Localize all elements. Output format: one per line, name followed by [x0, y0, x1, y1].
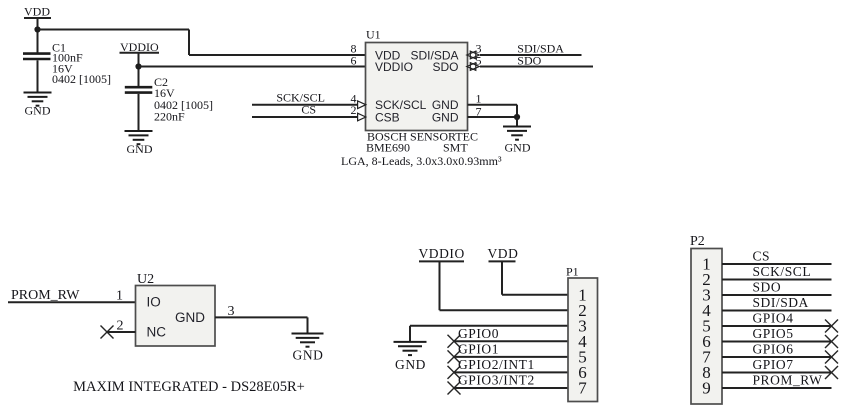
C1 value labels — [52, 40, 111, 86]
junction VDDIO node — [135, 63, 141, 69]
P1 pin numbers — [578, 285, 587, 397]
svg-text:NC: NC — [147, 325, 167, 340]
wire P2 pin 6 — [722, 341, 832, 343]
power flag VDDIO (P1) — [419, 246, 465, 262]
wire VDD horizontal run — [38, 29, 190, 31]
no-connect X GPIO7 — [825, 366, 838, 379]
wire down to ground — [307, 317, 309, 333]
svg-text:220nF: 220nF — [154, 110, 185, 124]
junction VDD node — [34, 26, 40, 32]
wire pin 1 down — [516, 105, 518, 117]
svg-text:6: 6 — [351, 53, 357, 67]
no-connect X at U2 pin 2 — [101, 326, 114, 339]
C2 value labels — [154, 75, 213, 124]
svg-text:U1: U1 — [366, 28, 381, 42]
no-connect X GPIO2 — [448, 366, 461, 379]
wire U2 pin 2 — [107, 331, 136, 333]
wire VDDIO stub down to C2 — [138, 53, 140, 87]
wire into U1 pin 8 — [189, 54, 366, 56]
svg-text:VDD: VDD — [488, 246, 519, 261]
connector P2 body — [691, 249, 722, 405]
svg-text:P1: P1 — [566, 265, 579, 279]
power flag VDDIO (top) — [120, 40, 160, 54]
ground symbol below C1 — [24, 93, 52, 106]
svg-text:SDO: SDO — [753, 280, 782, 295]
svg-text:GND: GND — [505, 141, 531, 155]
ground symbol below C2 — [125, 131, 153, 144]
wire into U1 pin 6 — [139, 66, 366, 68]
op-amp U1 body (BME690) — [366, 43, 468, 131]
svg-text:MAXIM INTEGRATED - DS28E05R+: MAXIM INTEGRATED - DS28E05R+ — [73, 379, 305, 395]
ground symbol (P1) — [394, 342, 427, 355]
svg-text:LGA, 8-Leads, 3.0x3.0x0.93mm³: LGA, 8-Leads, 3.0x3.0x0.93mm³ — [341, 154, 502, 168]
connector P1 body — [568, 278, 598, 402]
svg-text:9: 9 — [702, 379, 711, 398]
svg-text:GPIO7: GPIO7 — [753, 357, 794, 372]
svg-text:SDO: SDO — [432, 60, 458, 74]
svg-text:GPIO5: GPIO5 — [753, 326, 794, 341]
bidirectional arrow at pin 5 — [467, 62, 480, 71]
wire step down to pin 8 — [188, 30, 190, 56]
wire U1 pin 7 — [468, 116, 518, 118]
svg-text:1: 1 — [116, 289, 123, 304]
no-connect X GPIO3 — [448, 382, 461, 395]
svg-text:PROM_RW: PROM_RW — [753, 373, 823, 388]
svg-text:IO: IO — [147, 295, 161, 310]
svg-text:PROM_RW: PROM_RW — [11, 288, 80, 303]
wire P2 pin 8 — [722, 372, 832, 374]
svg-text:GND: GND — [127, 142, 153, 156]
ground symbol (U2) — [292, 334, 324, 347]
wire C2 to ground — [138, 94, 140, 131]
wire P2 pin 5 — [722, 325, 832, 327]
wire ground stem — [409, 326, 411, 342]
svg-text:GND: GND — [25, 103, 51, 117]
wire P2 pin 4 — [722, 310, 832, 312]
svg-text:7: 7 — [578, 379, 587, 398]
wire VDDIO down — [439, 261, 441, 310]
svg-text:P2: P2 — [690, 234, 705, 249]
wire ground to P1 pin 3 — [410, 325, 568, 327]
svg-text:GPIO4: GPIO4 — [753, 311, 794, 326]
svg-text:0402 [1005]: 0402 [1005] — [52, 72, 111, 86]
wire SDO — [480, 66, 593, 68]
svg-text:SCK/SCL: SCK/SCL — [753, 264, 812, 279]
no-connect X GPIO1 — [448, 350, 461, 363]
wire P2 pin 7 — [722, 356, 832, 358]
wire SCK/SCL into U1 pin 4 — [252, 104, 366, 106]
wire VDDIO to P1 pin 2 — [440, 309, 569, 311]
input arrow at pin 4 — [358, 101, 366, 109]
svg-text:GND: GND — [395, 357, 426, 372]
svg-text:GPIO0: GPIO0 — [458, 326, 499, 341]
wire P2 pin 9 — [722, 387, 832, 389]
svg-text:VDDIO: VDDIO — [419, 246, 465, 261]
no-connect X GPIO4 — [825, 320, 838, 333]
svg-text:VDD: VDD — [24, 4, 50, 18]
wire VDD stub down to C1 — [37, 18, 39, 53]
wire CS into U1 pin 2 — [252, 116, 366, 118]
no-connect X GPIO5 — [825, 335, 838, 348]
no-connect X GPIO6 — [825, 351, 838, 364]
svg-text:CSB: CSB — [375, 110, 400, 124]
wire VDD to P1 pin 1 — [502, 294, 568, 296]
transistor U2 body (DS28E05R+) — [136, 286, 216, 347]
svg-text:BME690: BME690 — [366, 141, 410, 155]
wire U1 pin 1 — [468, 104, 518, 106]
svg-text:GPIO1: GPIO1 — [458, 341, 499, 356]
svg-text:2: 2 — [351, 103, 357, 117]
bidirectional arrow at pin 3 — [467, 51, 480, 60]
wire PROM_RW into U2 pin 1 — [8, 301, 136, 303]
input arrow at pin 2 — [358, 113, 366, 121]
wire VDD down — [501, 261, 503, 294]
wire C1 to ground — [37, 60, 39, 92]
svg-text:VDDIO: VDDIO — [375, 60, 413, 74]
ground symbol (U1 GND pins) — [503, 127, 531, 140]
svg-text:CS: CS — [301, 103, 316, 117]
wire GPIO2 to P1 pin 6 — [454, 371, 568, 373]
svg-text:GND: GND — [293, 347, 324, 362]
svg-text:SMT: SMT — [443, 141, 468, 155]
wire GPIO0 to P1 pin 4 — [454, 340, 568, 342]
svg-text:GPIO3/INT2: GPIO3/INT2 — [458, 373, 535, 388]
wire GPIO3 to P1 pin 7 — [454, 387, 568, 389]
svg-text:GND: GND — [432, 110, 459, 124]
svg-text:GPIO6: GPIO6 — [753, 342, 794, 357]
power flag VDD (P1) — [488, 246, 519, 262]
wire U2 pin 3 — [215, 316, 308, 318]
wire SDI/SDA — [480, 54, 582, 56]
svg-text:CS: CS — [753, 249, 771, 264]
wire P2 pin 1 — [722, 263, 832, 265]
power flag VDD (top-left) — [24, 4, 51, 18]
svg-text:GPIO2/INT1: GPIO2/INT1 — [458, 357, 535, 372]
svg-text:U2: U2 — [137, 272, 154, 287]
wire to ground — [516, 117, 518, 127]
capacitor C1 — [23, 54, 51, 59]
wire P2 pin 3 — [722, 294, 832, 296]
P2 pin numbers — [702, 255, 711, 398]
wire P2 pin 2 — [722, 279, 832, 281]
wire GPIO1 to P1 pin 5 — [454, 356, 568, 358]
svg-text:SDO: SDO — [517, 54, 541, 68]
no-connect X GPIO0 — [448, 335, 461, 348]
svg-text:GND: GND — [175, 310, 205, 325]
junction GND node — [514, 114, 520, 120]
svg-text:SDI/SDA: SDI/SDA — [753, 295, 809, 310]
capacitor C2 — [125, 87, 153, 92]
